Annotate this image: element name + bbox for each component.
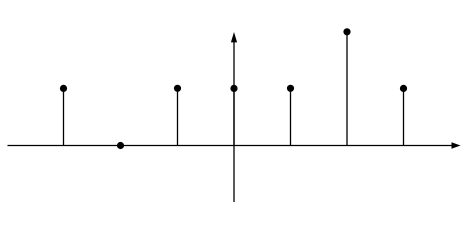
vertical axis [233,40,235,202]
horizontal axis (n-axis) [8,145,454,147]
sample dot n=-1 [174,85,181,92]
sample dot n=0 [230,85,237,92]
stem n=3 [403,90,405,146]
stem n=2 (tall) [346,34,348,146]
stem n=0 (on vertical axis) [233,90,235,146]
sample dot n=-3 [60,85,67,92]
sample dot n=1 [287,85,294,92]
stem n=-1 [177,90,179,146]
stem n=1 [290,90,292,146]
sample dot n=-2 (zero, on axis) [117,142,124,149]
stem n=-3 [63,90,65,146]
vertical axis arrowhead [231,32,237,42]
horizontal axis arrowhead [452,142,461,149]
sample dot n=3 [400,85,407,92]
sample dot n=2 [343,28,350,35]
